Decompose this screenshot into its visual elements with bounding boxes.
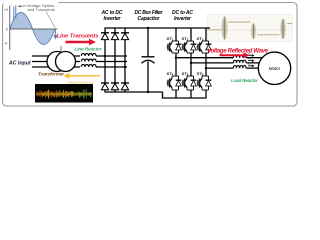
- wire harmonics arrow: [69, 75, 100, 77]
- wire reflected wave arrow: [220, 54, 245, 56]
- wire inverter leg 2 mid: [190, 53, 192, 76]
- svg-text:and Transients: and Transients: [28, 8, 56, 12]
- wire frame border: [3, 3, 298, 107]
- wire DC- inverter bottom rail: [163, 92, 207, 98]
- inductor L1 line reactor phase a: [81, 54, 96, 56]
- transistor ST5 IGBT with freewheel diode: [182, 76, 197, 90]
- wire annotation leader 1: [20, 5, 26, 7]
- wire AC input line b: [32, 61, 80, 63]
- inductor L4 load reactor phase a: [233, 57, 246, 59]
- inductor L5 load reactor phase b: [233, 62, 246, 64]
- wire inverter leg 1 lower stub: [175, 90, 177, 99]
- wire DC- rectifier bottom rail: [105, 91, 163, 93]
- transistor ST6 IGBT with freewheel diode: [197, 76, 212, 90]
- wire inverter leg 1 upper stub: [175, 28, 177, 41]
- node voltage spikes: [13, 7, 15, 21]
- node current label ia: [248, 55, 253, 57]
- node chart x-axis: [10, 28, 58, 30]
- wire reactor to bridge a: [96, 55, 127, 57]
- svg-text:Inverter: Inverter: [104, 16, 122, 22]
- wire annotation leader 2: [46, 12, 55, 28]
- svg-text:Line Transients: Line Transients: [57, 33, 100, 39]
- wire inverter leg 2 lower stub: [190, 90, 192, 99]
- node junction DC- capacitor tap: [147, 91, 149, 93]
- node harmonics spectrogram image: [35, 84, 93, 103]
- node end transient spike: [54, 29, 56, 38]
- wire bridge leg 1: [104, 28, 106, 92]
- node junction DC+ capacitor tap: [147, 27, 149, 29]
- svg-text:-V: -V: [4, 42, 8, 46]
- chart background: [4, 0, 59, 52]
- svg-text:Motor: Motor: [269, 66, 281, 71]
- svg-text:Line Reactor: Line Reactor: [75, 46, 102, 51]
- wire inverter leg 3 lower stub: [205, 90, 207, 99]
- svg-text:Load Reactor: Load Reactor: [231, 78, 258, 83]
- svg-text:Transformer: Transformer: [38, 72, 64, 77]
- wire bridge leg 3: [124, 28, 126, 92]
- node junction bridge phase c: [124, 66, 126, 68]
- svg-text:AC Input: AC Input: [8, 61, 31, 67]
- wire DC+ top rail: [105, 27, 211, 29]
- svg-text:Capacitor: Capacitor: [138, 16, 161, 22]
- node junction inverter leg3 phase c: [205, 67, 207, 69]
- inductor L3 line reactor phase c: [81, 65, 96, 67]
- diode D2 (upper): [111, 33, 119, 40]
- transformer T1: [47, 46, 76, 72]
- diode D3 (upper): [121, 33, 129, 40]
- wire phase c output: [206, 67, 263, 69]
- wire bridge leg 2: [114, 28, 116, 92]
- node sine-wave input voltage: [10, 13, 55, 45]
- node junction bridge phase b: [114, 60, 116, 62]
- transistor ST4 IGBT with freewheel diode: [167, 76, 182, 90]
- diode D6 (lower): [121, 83, 129, 90]
- inductor L6 load reactor phase c: [233, 67, 246, 69]
- node junction bridge phase a: [104, 55, 106, 57]
- diode D4 (lower): [101, 83, 109, 90]
- diode D5 (lower): [111, 83, 119, 90]
- wire inverter leg 3 upper stub: [205, 28, 207, 41]
- node scope reflected-wave screenshot: [207, 15, 293, 42]
- inductor L2 line reactor phase b: [81, 59, 96, 61]
- svg-text:+V: +V: [4, 8, 9, 12]
- wire line transients arrow: [66, 41, 90, 44]
- motor M1: [258, 52, 290, 84]
- wire AC input line a: [32, 55, 80, 57]
- node chart y-axis: [9, 6, 11, 51]
- node current label ic: [248, 65, 253, 67]
- wire AC input line c: [32, 66, 80, 68]
- wire phase b output: [191, 62, 262, 64]
- transistor ST3 IGBT with freewheel diode: [197, 41, 212, 53]
- svg-text:Voltage Reflected Wave: Voltage Reflected Wave: [207, 49, 269, 55]
- transistor ST1 IGBT with freewheel diode: [167, 41, 182, 53]
- node junction inverter leg1 phase a: [175, 57, 177, 59]
- wire inverter leg 1 mid: [175, 53, 177, 76]
- svg-text:Inverter: Inverter: [174, 16, 192, 22]
- wire inverter leg 3 mid: [205, 53, 207, 76]
- transistor ST2 IGBT with freewheel diode: [182, 41, 197, 53]
- node junction inverter leg2 phase b: [190, 62, 192, 64]
- node current label ib: [248, 60, 253, 62]
- wire inverter leg 2 upper stub: [190, 28, 192, 41]
- svg-text:0: 0: [6, 28, 8, 32]
- wire phase a output: [176, 57, 263, 59]
- wire reactor to bridge b: [96, 61, 127, 63]
- diode D1 (upper): [101, 33, 109, 40]
- wire reactor to bridge c: [96, 66, 127, 68]
- capacitor C1 DC bus: [142, 28, 155, 92]
